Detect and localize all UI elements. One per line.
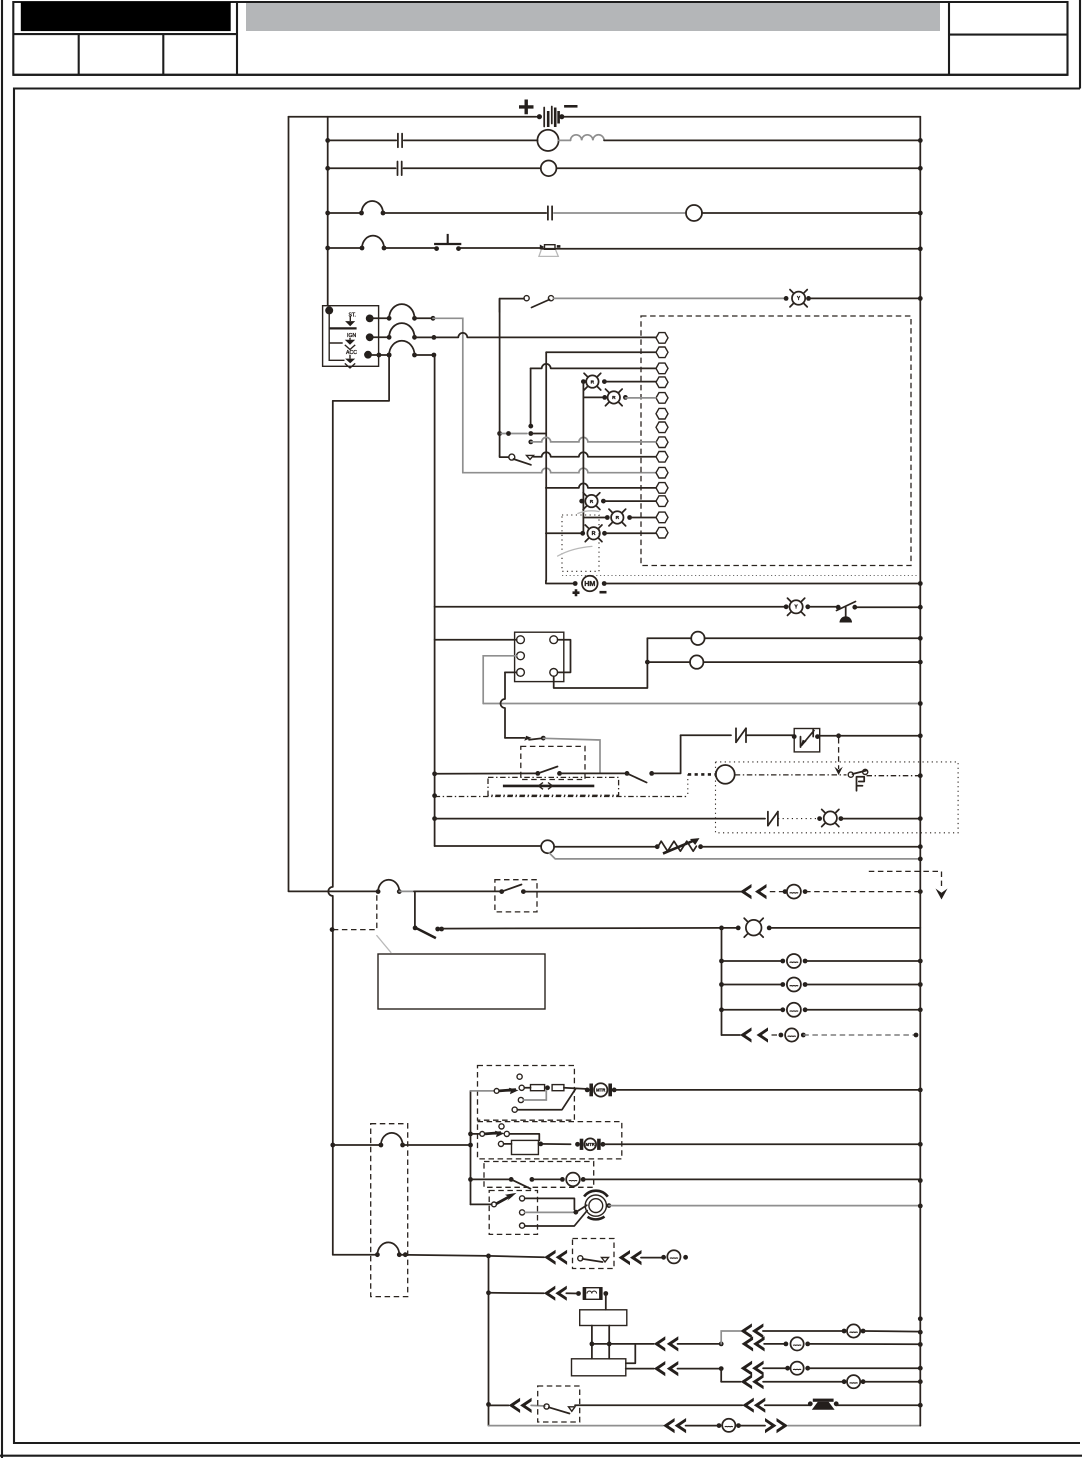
wire wiper low-speed tap (gray) — [524, 1091, 547, 1100]
wire row 773 from bus B3 — [432, 771, 437, 776]
diode D1 — [735, 728, 737, 742]
wire ACC terminal to fuse — [377, 353, 382, 358]
wire row2 inductor to bus — [604, 139, 920, 141]
wire pin2 row — [546, 351, 656, 353]
wire switch to horn chevrons — [575, 1404, 742, 1406]
dashed wire to lighter — [770, 891, 785, 893]
dashed trailer take-off — [869, 871, 942, 886]
page bottom line — [0, 1455, 1082, 1457]
hazard contact row 433.5 — [497, 431, 502, 436]
dashed wire to license lamp — [772, 1034, 781, 1036]
wire pin9 row — [534, 452, 656, 457]
flasher FL1 box — [794, 729, 820, 752]
svg-text:R: R — [590, 499, 594, 505]
wire fuse F7 to motor feed V10 — [403, 1144, 471, 1146]
title block cell lines — [13, 33, 237, 35]
wire pin3 vertical — [530, 368, 532, 424]
wire lamp Y2 to bus — [809, 297, 921, 299]
svg-text:R: R — [591, 379, 595, 385]
wire wiper resistors to motor — [564, 1088, 586, 1089]
wire row 1381 to bus — [863, 1381, 920, 1383]
connector chevrons row 1257 left — [544, 1250, 556, 1265]
wire ST terminal to fuse — [370, 317, 390, 319]
wire lamp row 984 stub — [722, 984, 783, 986]
dashed box SW-KEY — [573, 1239, 615, 1269]
wire row 773 to flasher riser — [652, 735, 681, 773]
rheostat R-PANEL zigzag — [658, 841, 696, 851]
dashed box A headlight switch — [521, 746, 585, 779]
connector chevrons row 1331 — [740, 1323, 752, 1338]
wire gray row 703.5 to bus — [483, 703, 920, 705]
wire row 846 from bus B3 corner — [435, 845, 542, 847]
wire row3 to regulator — [403, 167, 540, 169]
control unit box — [378, 954, 545, 1009]
connector pin 11 — [656, 483, 668, 494]
wire gauge1 to bus — [705, 637, 921, 639]
wiper switch arrow — [471, 1090, 495, 1092]
hour meter plus label — [573, 589, 580, 596]
dotted service box — [562, 515, 599, 571]
wire flasher to bus — [836, 733, 841, 738]
license lamp row 1035 — [779, 1033, 784, 1038]
wire row 1331 to bus — [863, 1330, 920, 1333]
switch SW-TAIL lever — [416, 928, 436, 938]
wire lamp Y1 to switch — [808, 606, 838, 608]
wire relay gray to long row — [483, 656, 516, 704]
ignition terminal dots — [366, 315, 374, 323]
bus B1 left vertical — [288, 117, 290, 891]
switch SW-TURN lever — [514, 459, 531, 465]
dashed wire lighter to bus — [805, 891, 920, 893]
svg-text:R: R — [592, 531, 596, 537]
wire lamp row 1009 to bus — [805, 1009, 920, 1011]
bus B2 corner to fuse F8 — [333, 1254, 378, 1256]
fuse F8 — [375, 1252, 380, 1257]
dashed drop arrowhead — [834, 767, 842, 775]
switch SW-TURN fixed contact — [527, 455, 534, 459]
connector chevrons row 1257 right — [619, 1250, 631, 1265]
wire row 1344 from coil — [592, 1343, 654, 1345]
wire washer block to motor — [538, 1143, 570, 1145]
wire row4 from bus B2 — [328, 212, 362, 214]
wire V7 corner to switch row — [505, 737, 525, 739]
trailer arrowhead — [936, 889, 948, 900]
wire fan feed — [471, 1203, 492, 1205]
wire R4 stub — [583, 517, 607, 519]
tall dashed fuse box — [371, 1124, 408, 1297]
tail lamp row 984 — [780, 982, 785, 987]
connector pin 2 — [656, 347, 668, 358]
connector pin 13 — [656, 512, 668, 523]
gauge GA2 circle — [690, 655, 703, 668]
spark row bracket upper (gray) — [721, 1331, 740, 1344]
wire row5 from bus B2 — [328, 247, 362, 249]
wire chevrons to switch (gray) — [531, 1404, 545, 1407]
fuse F7 — [379, 1143, 384, 1148]
wire switch to corner (gray) — [543, 738, 600, 773]
spark lamp row 1331 — [842, 1329, 847, 1334]
wire ST to pin10 (gray) — [463, 468, 656, 473]
dash-dot row 796.5 — [432, 793, 437, 798]
wire diode to flasher — [746, 734, 794, 736]
wire row5 fuse to button — [384, 247, 437, 249]
connector pin 6 — [656, 408, 668, 419]
wiper resistor R-W1 — [531, 1085, 545, 1091]
vertical V11 bottom feeder — [488, 1256, 490, 1426]
svg-text:HM: HM — [584, 579, 595, 588]
bus B3 ACC vertical — [433, 355, 436, 846]
wire ACC feed to bus B2 lower — [333, 357, 389, 401]
dimmer resistor thick element — [503, 785, 594, 788]
fuse F2 row5 — [360, 246, 365, 251]
wire resistor to coil — [605, 1294, 607, 1310]
wire gauge2 stub — [647, 661, 690, 663]
horn H2 — [808, 1401, 813, 1406]
horn H1 (key buzzer) — [545, 245, 556, 250]
wiper switch contacts — [517, 1074, 522, 1079]
wire ACC fuse to corner — [415, 354, 434, 356]
wire row 1381 to lamp — [763, 1381, 844, 1383]
battery BAT — [537, 114, 542, 119]
bus right vertical — [919, 117, 921, 1426]
wire pin11 row — [546, 483, 656, 488]
connector chevrons row 1035 — [740, 1027, 752, 1042]
fuse F1 row4 — [359, 211, 364, 216]
capacitor C2 row3 — [397, 162, 399, 176]
wire IGN terminal to fuse — [370, 336, 390, 338]
wire chevrons to resistor — [566, 1292, 578, 1294]
wire switch to bus — [855, 606, 921, 608]
connector pin 5 — [656, 393, 668, 404]
svg-text:IGN: IGN — [347, 333, 356, 339]
ignition ST arrow — [349, 316, 351, 322]
wire to spark row — [678, 1368, 722, 1370]
dashed box around SW-ACC — [495, 880, 537, 912]
dotted fuel sender box — [716, 762, 959, 833]
lamp R5 — [580, 531, 585, 536]
bus B1 corner to fuse row — [289, 890, 379, 892]
inductor L1 coil — [559, 139, 571, 141]
wire row1 to battery — [289, 116, 537, 118]
connector chevrons row 1404 — [509, 1398, 520, 1413]
sender circle row 846 — [541, 840, 554, 853]
wire F8 to corner — [399, 1255, 488, 1256]
connector chevrons bottom right (pointing right) — [765, 1418, 777, 1433]
thick dashed stub to fuel gauge — [688, 773, 716, 776]
regulator circle row3 — [541, 161, 557, 177]
fan switch arrow — [497, 1193, 517, 1204]
connector chevrons row 1344 outer — [742, 1336, 754, 1351]
wire feed row 1145 from bus B2 — [330, 1143, 335, 1148]
ignition IGN arrows — [349, 338, 351, 340]
dotted wire diode to lamp — [778, 818, 820, 820]
wire fan contact3 to siren — [525, 1211, 588, 1227]
wire flasher row left — [681, 734, 731, 736]
hazard contact dot row 441.9 — [528, 440, 533, 445]
wire HM to bus — [604, 583, 920, 585]
wire fan dot to siren diagonal — [576, 1205, 587, 1212]
wire pin2 vertical V3 — [545, 352, 547, 580]
wire R5 stub from V4 — [546, 532, 583, 534]
washer resistor block — [512, 1140, 539, 1154]
wire row5 horn to bus — [541, 248, 920, 250]
wire to lamp row 1257 — [641, 1257, 664, 1259]
lamp row 1257 — [667, 1250, 680, 1263]
title block black banner — [21, 2, 231, 31]
fuel tank switch contacts — [848, 772, 853, 777]
connector pin 4 — [656, 377, 668, 388]
lamp R2 — [602, 395, 607, 400]
motor feed vertical V10 — [470, 1091, 472, 1205]
wire row 1292 stub — [489, 1292, 544, 1294]
leader squiggle upper (gray) — [578, 511, 599, 514]
lamp R4 — [605, 515, 610, 520]
wire row5 button to horn — [459, 247, 541, 249]
connector chevrons row 1368 inner — [654, 1361, 666, 1376]
wire row 818.6 from bus B3 — [432, 816, 437, 821]
switch SW-LIGHT2 lever — [627, 773, 647, 782]
wire row 858.9 (gray) — [549, 853, 920, 859]
switch SW-KEY — [578, 1256, 583, 1261]
wire distributor to plugs — [626, 1368, 654, 1370]
wire blower lamp to bus — [583, 1178, 920, 1180]
push button switch SW-HORN — [434, 246, 439, 251]
wire relay black down V7 — [505, 671, 517, 673]
wire bottom gray row corner — [489, 1425, 664, 1427]
connector chevrons row 1344 inner — [654, 1336, 666, 1351]
bottom lamp — [717, 1423, 722, 1428]
svg-text:Y: Y — [794, 605, 798, 611]
leader line to control unit — [377, 936, 391, 953]
lamp bus vertical V6 — [582, 382, 584, 534]
hour meter HM — [573, 581, 578, 586]
spark lamp row 1368 — [785, 1366, 790, 1371]
switch SW-BRAKE plunger — [845, 607, 847, 616]
wire fan contact2 to siren (gray) — [525, 1211, 573, 1213]
switch SW-BRAKE lever — [837, 602, 856, 611]
wire pin8 row (gray) — [531, 437, 656, 442]
connector chevrons row 1292 — [544, 1286, 556, 1301]
gauge GA1 circle — [691, 632, 704, 645]
lamp R3 — [579, 499, 584, 504]
wire SW-OIL to lamp Y2 (gray) — [554, 297, 787, 299]
wire MTR1 to bus — [613, 1089, 920, 1091]
blower switch dashed box — [484, 1162, 594, 1188]
wire rheostat to bus — [701, 846, 921, 848]
wire gauge2 to bus — [703, 661, 920, 663]
wire wiper park contact — [517, 1089, 576, 1110]
fuse F3 ST — [387, 316, 392, 321]
coil to distributor wires — [591, 1326, 593, 1359]
washer motor MTR2 — [580, 1139, 584, 1150]
ignition switch SW-IGN box — [323, 306, 379, 367]
wire bottom row to bus (gray) — [788, 1425, 920, 1427]
wire row3 from bus B2 — [328, 167, 396, 169]
wire gauges vertical — [554, 638, 648, 688]
bus B2 lower vertical — [328, 401, 333, 1255]
connector pin 9 — [656, 452, 668, 463]
wire blower feed — [471, 1178, 512, 1180]
vertical V4 to HM — [546, 581, 575, 584]
svg-text:MTR: MTR — [596, 1088, 605, 1093]
svg-text:Y: Y — [797, 296, 801, 302]
fuel sender F symbol — [857, 777, 865, 791]
wiper motor dashed box — [478, 1066, 575, 1121]
wire washer contact3 to block — [504, 1143, 512, 1145]
dash-dot box B dimmer — [488, 777, 619, 795]
wiper resistor R-W2 — [552, 1085, 564, 1091]
hour meter minus label — [600, 591, 607, 594]
title block outer box — [13, 2, 1067, 75]
wire row 606.8 from bus B3 — [435, 606, 786, 608]
diode D2 — [767, 812, 769, 826]
title block gray banner — [246, 3, 940, 31]
wire fuse to junction (gray) — [399, 890, 414, 892]
wire R3 to pin12 — [603, 500, 655, 502]
battery minus label — [564, 105, 577, 108]
wire lamp to bus — [841, 818, 920, 820]
wire siren to bus (gray) — [609, 1205, 920, 1207]
connector pin 14 — [656, 527, 668, 538]
connector chevrons row 1381 — [741, 1374, 753, 1389]
lamp row4 circle — [686, 205, 702, 221]
wire R2 to pin5 (gray) — [625, 397, 655, 399]
distributor box — [572, 1359, 626, 1376]
washer switch contacts — [499, 1124, 504, 1129]
switch SW-ACC — [499, 889, 504, 894]
wire V8 drop to switch 928 — [414, 891, 416, 928]
connector chevrons row 1405 — [742, 1398, 754, 1413]
capacitor C1 row2 — [397, 134, 399, 148]
lamp feeder vertical V9 — [721, 928, 723, 1035]
fuel gauge circle — [716, 765, 735, 784]
wire row 1344 to bus — [808, 1343, 921, 1345]
page right edge stub — [1079, 0, 1081, 89]
wire gauge1 stub — [647, 637, 691, 639]
connector pin 12 — [656, 496, 668, 507]
connector pin 3 — [656, 363, 668, 374]
headlamp row 928 — [736, 926, 741, 931]
switch SW-BLOWER lever — [511, 1179, 530, 1188]
switch SW-TURN circle — [509, 454, 515, 460]
spark lamp row 1344 — [784, 1342, 789, 1347]
wire row4 lamp to bus — [702, 212, 920, 214]
wire MTR2 to bus — [603, 1143, 921, 1145]
wire row 1344 to lamp — [764, 1343, 786, 1345]
connector pin 7 — [656, 422, 668, 433]
switch SW-LIGHT1 — [535, 771, 540, 776]
lamp R1 — [581, 379, 586, 384]
wire row2 to generator — [404, 139, 538, 141]
svg-text:R: R — [612, 395, 616, 401]
wire row2 from bus B2 — [328, 139, 397, 141]
wire horn to bus — [836, 1404, 920, 1406]
wire row 1331 to lamp — [763, 1330, 844, 1332]
wire lamp row 984 to bus — [805, 984, 920, 986]
wire lamp row 961 to bus — [805, 960, 920, 962]
dotted riser x687.8 — [687, 774, 689, 796]
page left edge line — [1, 0, 3, 1458]
relay pins — [517, 636, 525, 644]
flasher FL1 internal — [801, 730, 815, 748]
switch SW-HORN2 — [544, 1404, 549, 1409]
wire R4 to pin13 — [630, 517, 656, 519]
ignition switch internal wiring — [329, 310, 344, 360]
dash-dot wire fuel to switch — [735, 774, 847, 776]
wire pin3 corner and row — [531, 364, 656, 368]
wire feed to relay from bus B3 — [435, 639, 517, 641]
wire row 1381 stub — [721, 1381, 740, 1383]
wire junction to switch box — [414, 890, 502, 892]
wire V5 oil-switch vertical — [499, 299, 501, 456]
wiper motor MTR1 — [589, 1084, 593, 1097]
switch SW-BRAKE pivot — [836, 605, 841, 610]
wire wiper contact to resistor — [524, 1087, 530, 1089]
ballast resistor (boxed) — [583, 1288, 602, 1300]
wire fan contact1 to siren — [525, 1198, 575, 1209]
instrument cluster dashed box — [641, 316, 911, 566]
wire row 1344 mid — [678, 1343, 722, 1345]
fan switch dashed box — [489, 1191, 537, 1235]
relay RLY1 box — [515, 632, 564, 681]
generator G1 circle — [537, 130, 558, 151]
wire row 1368 to bus — [808, 1367, 921, 1369]
wire row 928 to lamp — [442, 927, 722, 930]
wire R1 to pin4 — [604, 381, 655, 383]
wire sender to rheostat — [554, 846, 657, 848]
connector chevrons bottom left — [663, 1418, 675, 1433]
wire switch to chevrons — [523, 891, 741, 893]
svg-text:ACC: ACC — [346, 350, 357, 356]
indicator lamp Y1 — [784, 604, 789, 609]
wire row 298 corner from vertical V5 — [500, 299, 524, 312]
battery plus label — [519, 100, 534, 115]
tail lamp row 961 — [780, 959, 785, 964]
distributor link riser — [626, 1344, 636, 1363]
wire lamp row 1035 stub — [722, 1034, 741, 1036]
washer switch arrow — [471, 1133, 480, 1135]
wire R5 to pin14 — [605, 532, 656, 534]
connector chevrons row 1368 outer — [741, 1361, 753, 1376]
indicator lamp Y2 — [784, 296, 789, 301]
switch SW-IGNFEED lever — [529, 738, 543, 740]
dashed link at B2 end — [333, 893, 377, 930]
warning lamp row 818 — [824, 811, 837, 824]
wire R2 stub — [583, 396, 604, 398]
tail lamp row 1009 — [780, 1007, 785, 1012]
ignition switch input dot — [325, 306, 333, 314]
cigar lighter lamp — [787, 885, 801, 899]
wire washer contact to block — [509, 1134, 539, 1141]
connector pin 1 — [656, 333, 668, 344]
fuse F4 IGN — [387, 335, 392, 340]
fan switch contacts — [520, 1196, 525, 1201]
dashed drop from flasher row — [838, 738, 840, 769]
dashed wire row 1035 to bus — [803, 1034, 916, 1036]
switch SW-IGNFEED arrow tip — [524, 736, 531, 741]
wire row 1368 to lamp — [763, 1367, 788, 1369]
wire row4 capacitor to lamp (gray) — [554, 212, 686, 214]
connector pin 10 — [656, 467, 668, 478]
connector chevrons row 891 — [740, 884, 752, 899]
wire row 773 mid — [560, 772, 628, 774]
wire row4 fuse to capacitor — [383, 212, 546, 214]
bus B2 left vertical — [327, 117, 329, 306]
blower lamp — [560, 1177, 565, 1182]
switch SW-TAIL pivot — [413, 926, 418, 931]
dash-dot wire switch to bus — [867, 775, 921, 777]
spark row bracket lower — [720, 1369, 722, 1382]
